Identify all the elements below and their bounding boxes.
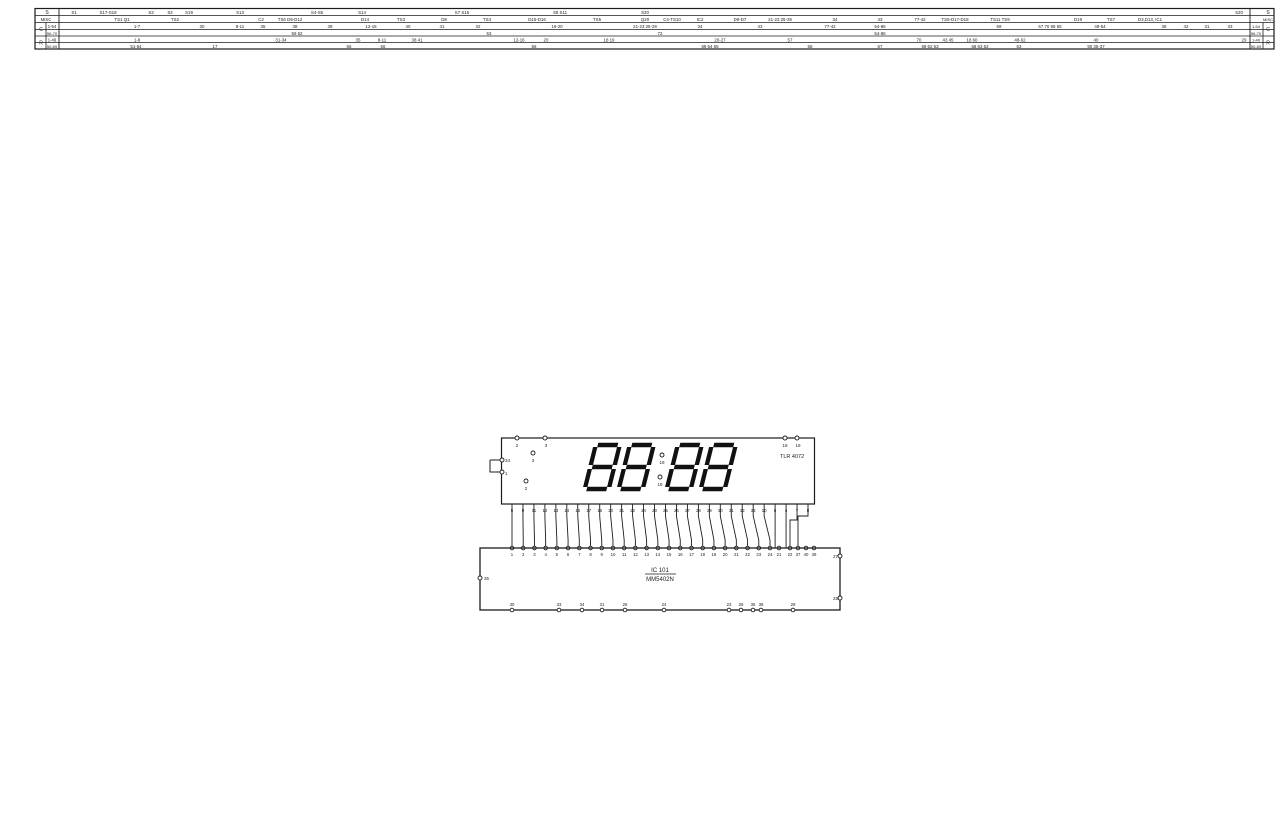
- svg-text:37: 37: [796, 552, 801, 557]
- svg-text:11: 11: [622, 552, 627, 557]
- svg-text:24: 24: [768, 552, 773, 557]
- svg-text:21-23 25-29: 21-23 25-29: [633, 24, 657, 29]
- svg-text:29: 29: [1242, 37, 1247, 42]
- svg-text:IC 101: IC 101: [651, 568, 669, 574]
- svg-text:31: 31: [600, 602, 605, 607]
- IC pin 25 right: [833, 596, 842, 601]
- svg-text:23: 23: [727, 602, 732, 607]
- svg-text:38: 38: [293, 24, 298, 29]
- svg-text:TS2: TS2: [171, 17, 180, 22]
- svg-text:20: 20: [723, 552, 728, 557]
- svg-text:C: C: [1266, 27, 1270, 33]
- svg-text:34: 34: [698, 24, 703, 29]
- svg-text:38 41: 38 41: [412, 37, 424, 42]
- svg-text:69: 69: [997, 24, 1002, 29]
- svg-text:S19: S19: [185, 10, 193, 15]
- svg-text:14: 14: [655, 552, 660, 557]
- svg-text:58: 58: [808, 44, 813, 49]
- svg-text:43: 43: [758, 24, 763, 29]
- svg-text:TLR 4072: TLR 4072: [780, 454, 804, 460]
- svg-text:72: 72: [658, 31, 663, 36]
- svg-text:51-54: 51-54: [130, 44, 142, 49]
- svg-text:1-49: 1-49: [1252, 37, 1261, 42]
- svg-text:19: 19: [659, 460, 665, 465]
- svg-text:23: 23: [756, 552, 761, 557]
- svg-text:16-20: 16-20: [551, 24, 563, 29]
- svg-text:27: 27: [833, 554, 839, 559]
- display colon and pin markers: [524, 451, 665, 491]
- IC U101 MM5402N outline: [480, 548, 840, 610]
- svg-text:19: 19: [795, 443, 801, 448]
- svg-text:S2: S2: [167, 10, 173, 15]
- svg-text:34: 34: [580, 602, 585, 607]
- svg-text:S20: S20: [641, 10, 649, 15]
- svg-text:43: 43: [878, 17, 883, 22]
- svg-text:38: 38: [759, 602, 764, 607]
- svg-text:22: 22: [745, 552, 750, 557]
- svg-text:77-42: 77-42: [914, 17, 926, 22]
- svg-text:18: 18: [700, 552, 705, 557]
- svg-text:40: 40: [1094, 37, 1099, 42]
- svg-text:16: 16: [678, 552, 683, 557]
- svg-text:TS5: TS5: [593, 17, 602, 22]
- svg-text:67 70 68 55: 67 70 68 55: [1038, 24, 1062, 29]
- svg-text:69 64 65: 69 64 65: [701, 44, 719, 49]
- svg-text:19: 19: [712, 552, 717, 557]
- svg-text:24: 24: [662, 602, 667, 607]
- svg-text:S14: S14: [358, 10, 366, 15]
- svg-text:C4-TS10: C4-TS10: [663, 17, 681, 22]
- svg-text:63: 63: [487, 31, 492, 36]
- svg-text:50-69: 50-69: [47, 44, 58, 49]
- svg-text:50-69: 50-69: [1251, 44, 1262, 49]
- svg-text:30: 30: [510, 602, 515, 607]
- svg-text:TS8-D17-D18: TS8-D17-D18: [941, 17, 969, 22]
- svg-text:18: 18: [782, 443, 788, 448]
- svg-text:56 62: 56 62: [292, 31, 304, 36]
- svg-text:41: 41: [440, 24, 445, 29]
- svg-text:18 19: 18 19: [604, 37, 616, 42]
- svg-text:33: 33: [557, 602, 562, 607]
- svg-text:TS7: TS7: [1107, 17, 1116, 22]
- svg-text:S17-S18: S17-S18: [99, 10, 117, 15]
- svg-text:56-70: 56-70: [47, 31, 58, 36]
- svg-text:43 45: 43 45: [943, 37, 955, 42]
- svg-text:MISC: MISC: [41, 17, 51, 22]
- svg-text:48-62: 48-62: [1014, 37, 1026, 42]
- svg-text:56: 56: [532, 44, 537, 49]
- IC pin 35 left: [478, 576, 490, 581]
- svg-text:S20: S20: [1235, 10, 1243, 15]
- display module TLR4072 outline: [502, 438, 815, 504]
- svg-text:39: 39: [812, 552, 817, 557]
- svg-text:70: 70: [917, 37, 922, 42]
- svg-text:MISC: MISC: [1263, 17, 1273, 22]
- svg-text:S4-S5: S4-S5: [311, 10, 324, 15]
- svg-text:R: R: [1266, 41, 1270, 47]
- svg-text:59 62 63: 59 62 63: [921, 44, 939, 49]
- svg-text:30: 30: [200, 24, 205, 29]
- svg-text:28: 28: [739, 602, 744, 607]
- svg-text:21: 21: [734, 552, 739, 557]
- svg-text:25: 25: [833, 596, 839, 601]
- svg-text:68 63 62: 68 63 62: [971, 44, 989, 49]
- svg-text:TS6 D9-D12: TS6 D9-D12: [278, 17, 303, 22]
- svg-text:TS11 TS9: TS11 TS9: [990, 17, 1010, 22]
- svg-text:35: 35: [356, 37, 361, 42]
- svg-text:1-7: 1-7: [134, 24, 141, 29]
- svg-text:17: 17: [213, 44, 218, 49]
- svg-text:21-23 25-29: 21-23 25-29: [768, 17, 792, 22]
- svg-text:D14: D14: [361, 17, 370, 22]
- svg-text:40: 40: [804, 552, 809, 557]
- svg-text:21: 21: [777, 552, 782, 557]
- svg-text:IC2: IC2: [697, 17, 704, 22]
- svg-text:32: 32: [476, 24, 481, 29]
- svg-text:31: 31: [1205, 24, 1210, 29]
- svg-text:12: 12: [633, 552, 638, 557]
- svg-text:8-11: 8-11: [378, 37, 387, 42]
- svg-text:D19: D19: [1074, 17, 1083, 22]
- svg-text:17: 17: [689, 552, 694, 557]
- svg-text:D8: D8: [441, 17, 447, 22]
- svg-text:1-54: 1-54: [1252, 24, 1261, 29]
- svg-text:S13: S13: [236, 10, 244, 15]
- svg-text:20-27: 20-27: [714, 37, 726, 42]
- svg-text:12-15: 12-15: [365, 24, 377, 29]
- svg-text:34: 34: [505, 458, 511, 463]
- IC 101 top pin row: [510, 546, 817, 557]
- svg-text:D15-D16: D15-D16: [528, 17, 546, 22]
- svg-text:31-34: 31-34: [275, 37, 287, 42]
- display top pins: [515, 436, 801, 448]
- display-to-IC bus wires: [512, 504, 808, 548]
- svg-text:39: 39: [328, 24, 333, 29]
- svg-text:56-70: 56-70: [1251, 31, 1262, 36]
- svg-text:S1: S1: [71, 10, 77, 15]
- svg-text:66: 66: [381, 44, 386, 49]
- svg-text:22: 22: [788, 552, 793, 557]
- svg-text:29: 29: [791, 602, 796, 607]
- svg-text:1-49: 1-49: [48, 37, 57, 42]
- svg-text:12-16: 12-16: [513, 37, 525, 42]
- display pins 34 and 1: [490, 458, 511, 476]
- svg-text:35: 35: [261, 24, 266, 29]
- svg-text:54-86: 54-86: [874, 24, 886, 29]
- svg-text:S8 S11: S8 S11: [553, 10, 568, 15]
- svg-text:Q20: Q20: [641, 17, 650, 22]
- svg-text:18 60: 18 60: [967, 37, 979, 42]
- svg-text:S7 S15: S7 S15: [455, 10, 470, 15]
- svg-text:40: 40: [406, 24, 411, 29]
- svg-text:D3,D13, IC1: D3,D13, IC1: [1138, 17, 1163, 22]
- svg-text:20: 20: [544, 37, 549, 42]
- svg-text:50 35-37: 50 35-37: [1087, 44, 1105, 49]
- svg-text:MM5402N: MM5402N: [646, 577, 674, 583]
- IC bottom pins: [510, 602, 796, 612]
- display bottom pin numbers: [511, 508, 810, 513]
- svg-text:C: C: [39, 27, 43, 33]
- svg-text:49-54: 49-54: [1094, 24, 1106, 29]
- svg-text:TS4: TS4: [483, 17, 492, 22]
- svg-text:TS1 Q1: TS1 Q1: [114, 17, 130, 22]
- svg-text:15: 15: [667, 552, 672, 557]
- svg-text:33: 33: [1228, 24, 1233, 29]
- svg-text:34: 34: [833, 17, 838, 22]
- IC pin 27 right: [833, 554, 842, 559]
- svg-text:10: 10: [611, 552, 616, 557]
- svg-text:57: 57: [788, 37, 793, 42]
- svg-text:36: 36: [751, 602, 756, 607]
- display digits 88:88: [585, 445, 736, 489]
- svg-text:35: 35: [484, 576, 490, 581]
- svg-text:36: 36: [1162, 24, 1167, 29]
- svg-text:R: R: [39, 41, 43, 47]
- svg-text:55: 55: [347, 44, 352, 49]
- svg-text:42: 42: [1184, 24, 1189, 29]
- svg-text:67: 67: [878, 44, 883, 49]
- component location table: [35, 9, 1274, 50]
- svg-text:26: 26: [623, 602, 628, 607]
- svg-text:13: 13: [644, 552, 649, 557]
- svg-text:S3: S3: [148, 10, 154, 15]
- svg-text:18: 18: [657, 482, 663, 487]
- svg-text:D9-D7: D9-D7: [734, 17, 747, 22]
- svg-text:1-54: 1-54: [48, 24, 57, 29]
- svg-text:63: 63: [1017, 44, 1022, 49]
- svg-text:C2: C2: [258, 17, 264, 22]
- svg-text:1-8: 1-8: [134, 37, 141, 42]
- svg-text:TS3: TS3: [397, 17, 406, 22]
- svg-text:77-42: 77-42: [824, 24, 836, 29]
- svg-text:54-86: 54-86: [874, 31, 886, 36]
- svg-text:8-11: 8-11: [236, 24, 245, 29]
